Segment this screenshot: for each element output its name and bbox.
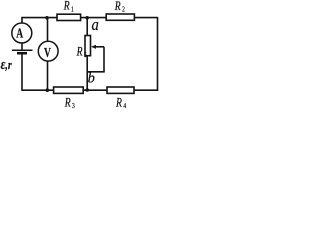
svg-text:A: A <box>16 24 23 40</box>
wire right vertical <box>157 17 159 91</box>
wire bottom left segment <box>22 89 54 91</box>
wire voltmeter top lead <box>47 18 49 42</box>
svg-text:V: V <box>44 44 51 60</box>
wire R2 to top right corner <box>134 17 157 19</box>
voltmeter V <box>38 41 58 61</box>
resistor R2 <box>106 14 134 20</box>
wire wiper return to R5 bottom <box>87 71 105 73</box>
battery cell positive plate <box>12 49 33 51</box>
rheostat R5 <box>85 36 91 56</box>
svg-text:b: b <box>88 70 95 86</box>
wire wiper vertical <box>103 47 105 72</box>
wire node a to R5 <box>86 18 88 36</box>
wire R5 bottom to node b <box>86 55 88 90</box>
svg-text:R1: R1 <box>63 0 74 14</box>
svg-text:ε,r: ε,r <box>1 55 13 72</box>
wire bottom right segment <box>134 89 158 91</box>
svg-text:R3: R3 <box>64 96 76 110</box>
ammeter A <box>12 23 32 43</box>
battery cell negative plate <box>17 52 27 55</box>
wiper arrow of R5 <box>94 46 104 48</box>
junction dot voltmeter bottom <box>46 88 50 92</box>
wire R1 to R2 <box>81 17 107 19</box>
wire R3 to R4 <box>83 89 107 91</box>
junction dot voltmeter top <box>45 16 49 20</box>
resistor R1 <box>57 14 81 20</box>
resistor R3 <box>54 87 84 93</box>
wire left vertical lower <box>21 53 23 91</box>
resistor R4 <box>107 87 134 93</box>
svg-text:R2: R2 <box>114 0 125 14</box>
svg-text:a: a <box>92 16 99 34</box>
wire top left segment <box>22 18 57 24</box>
wire voltmeter bottom lead <box>47 61 49 90</box>
node b junction dot <box>85 88 89 92</box>
svg-text:R4: R4 <box>115 96 127 110</box>
node a junction dot <box>85 16 89 20</box>
wire battery to ammeter <box>21 43 23 50</box>
